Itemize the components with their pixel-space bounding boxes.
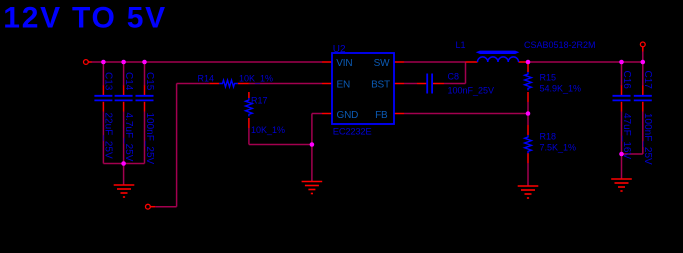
svg-text:100nF_25V: 100nF_25V <box>144 113 155 165</box>
wire C16 top <box>621 62 623 86</box>
node FB divider <box>526 111 531 116</box>
svg-text:R14: R14 <box>198 74 215 84</box>
wire output rail <box>528 61 643 63</box>
wire SW <box>404 61 466 63</box>
svg-text:L1: L1 <box>456 40 466 50</box>
pin stub C8 right <box>433 83 444 85</box>
svg-text:22uF_25V: 22uF_25V <box>103 113 114 159</box>
svg-text:BST: BST <box>371 80 390 91</box>
wire C13 bottom <box>102 112 104 164</box>
wire cap ground rail <box>103 163 144 165</box>
pin stub FB <box>394 113 404 115</box>
wire C17 to gnd node <box>622 153 643 155</box>
pin stub R17 bottom <box>248 118 250 128</box>
svg-text:C14: C14 <box>123 72 134 91</box>
pin stub R18 bottom <box>527 153 529 163</box>
pin stub EN connector <box>150 206 155 208</box>
node VIN-C14 <box>121 60 126 65</box>
svg-text:100nF_25V: 100nF_25V <box>642 113 653 165</box>
pin stub R15 bottom <box>527 92 529 102</box>
capacitor C15 <box>136 96 154 101</box>
wire FB <box>404 113 528 115</box>
capacitor C14 <box>115 96 133 101</box>
pin stub C16 bottom <box>621 102 623 112</box>
wire SW down to C8 <box>465 62 467 84</box>
wire rail to ground <box>123 164 125 185</box>
wire out connector drop <box>642 52 644 63</box>
wire GND vertical <box>311 114 313 182</box>
pin stub C16 top <box>621 86 623 96</box>
wire GND pin <box>312 113 322 115</box>
resistor R15 <box>525 72 532 90</box>
wire R15 bottom <box>527 102 529 114</box>
svg-text:4.7uF_25V: 4.7uF_25V <box>123 113 134 162</box>
node junction dots <box>101 60 645 166</box>
svg-text:C15: C15 <box>144 72 155 91</box>
pin stub R14 right <box>238 83 249 85</box>
svg-text:CSAB0518-2R2M: CSAB0518-2R2M <box>524 40 596 50</box>
wire BST to C8 <box>404 83 417 85</box>
wire EN connector horizontal <box>155 206 176 208</box>
pin stub C14 bottom <box>123 102 125 112</box>
connector P-out <box>640 42 645 47</box>
resistor R14 <box>219 80 238 87</box>
ground (caps left) <box>114 185 135 197</box>
node cap gnd rail <box>121 161 126 166</box>
pin stub C14 top <box>123 86 125 96</box>
svg-text:R17: R17 <box>251 95 268 105</box>
svg-text:VIN: VIN <box>336 58 352 69</box>
pin stub R14 left <box>209 83 219 85</box>
capacitor C17 <box>634 96 652 101</box>
svg-text:12V TO 5V: 12V TO 5V <box>3 2 167 35</box>
resistor R17 <box>246 98 253 116</box>
connector P-in <box>84 60 89 65</box>
svg-text:10K_1%: 10K_1% <box>239 74 273 84</box>
node out-C17 <box>641 60 646 65</box>
pin stub GND <box>322 113 332 115</box>
pin stub C15 top <box>144 86 146 96</box>
svg-text:7.5K_1%: 7.5K_1% <box>540 143 577 153</box>
wire R14 to EN pin <box>249 83 322 85</box>
svg-text:GND: GND <box>337 110 359 121</box>
ground (C16 C17) <box>611 179 632 191</box>
wire C8 right <box>444 83 466 85</box>
wire C14 top <box>123 62 125 86</box>
pin stub R18 top <box>527 125 529 135</box>
pin stub C17 bottom <box>642 102 644 112</box>
wire gnd node down <box>621 154 623 179</box>
ground (IC GND) <box>302 182 323 194</box>
wire VIN rail <box>91 61 322 63</box>
wire C13 top <box>102 62 104 86</box>
svg-text:100nF_25V: 100nF_25V <box>448 86 495 96</box>
pin stub EN <box>322 83 332 85</box>
wire R17 bottom <box>248 128 250 145</box>
node L1-R15 <box>526 60 531 65</box>
capacitor C16 <box>613 96 631 101</box>
pin stub L1 left <box>466 61 478 63</box>
pin stub SW <box>394 61 404 63</box>
pin stub BST <box>394 83 404 85</box>
svg-text:R18: R18 <box>540 132 557 142</box>
wire EN to R14 <box>177 83 210 85</box>
svg-text:R15: R15 <box>540 73 557 83</box>
pin stub C8 left <box>417 83 426 85</box>
svg-text:EC2232E: EC2232E <box>333 126 372 137</box>
capacitor C13 <box>94 96 112 101</box>
IC U2 EC2232E box <box>332 53 394 124</box>
svg-text:47uF_16V: 47uF_16V <box>621 113 632 159</box>
svg-text:C8: C8 <box>448 72 460 82</box>
node VIN-C15 <box>142 60 147 65</box>
svg-text:C16: C16 <box>621 71 632 90</box>
wire C17 bottom <box>642 112 644 155</box>
ground (R18) <box>518 186 539 198</box>
wire R18 top <box>527 114 529 126</box>
node gnd net <box>310 142 315 147</box>
pin stub C15 bottom <box>144 102 146 112</box>
node C16-C17 gnd <box>619 152 624 157</box>
pin stub C13 top <box>102 86 104 96</box>
inductor L1 <box>478 57 519 62</box>
pin stub R15 top <box>527 62 529 72</box>
pin stub input connector <box>88 61 91 63</box>
capacitor C8 <box>427 74 432 94</box>
svg-text:FB: FB <box>375 110 388 121</box>
wire C14 bottom <box>123 112 125 164</box>
wire EN vertical <box>176 84 178 207</box>
pin stub out connector <box>642 47 644 52</box>
wire C17 top <box>642 62 644 86</box>
wire C16 bottom <box>621 112 623 155</box>
node out-C16 <box>619 60 624 65</box>
pin stub VIN <box>322 61 332 63</box>
resistor R18 <box>525 135 532 153</box>
svg-text:54.9K_1%: 54.9K_1% <box>540 84 582 94</box>
pin stub L1 right <box>519 61 529 63</box>
svg-text:10K_1%: 10K_1% <box>251 125 285 135</box>
pin stub R17 top <box>248 92 250 98</box>
svg-text:SW: SW <box>374 58 390 69</box>
connector P-en <box>146 204 151 209</box>
node VIN-C13 <box>101 60 106 65</box>
wire R17 to gnd node <box>249 144 312 146</box>
svg-text:U2: U2 <box>333 44 346 55</box>
wire R18 bottom <box>527 163 529 186</box>
svg-text:C13: C13 <box>103 72 114 91</box>
wire C15 bottom <box>144 112 146 164</box>
wire C15 top <box>144 62 146 86</box>
svg-text:C17: C17 <box>642 71 653 90</box>
svg-text:EN: EN <box>337 80 351 91</box>
pin stub C13 bottom <box>102 102 104 112</box>
pin stub C17 top <box>642 86 644 96</box>
